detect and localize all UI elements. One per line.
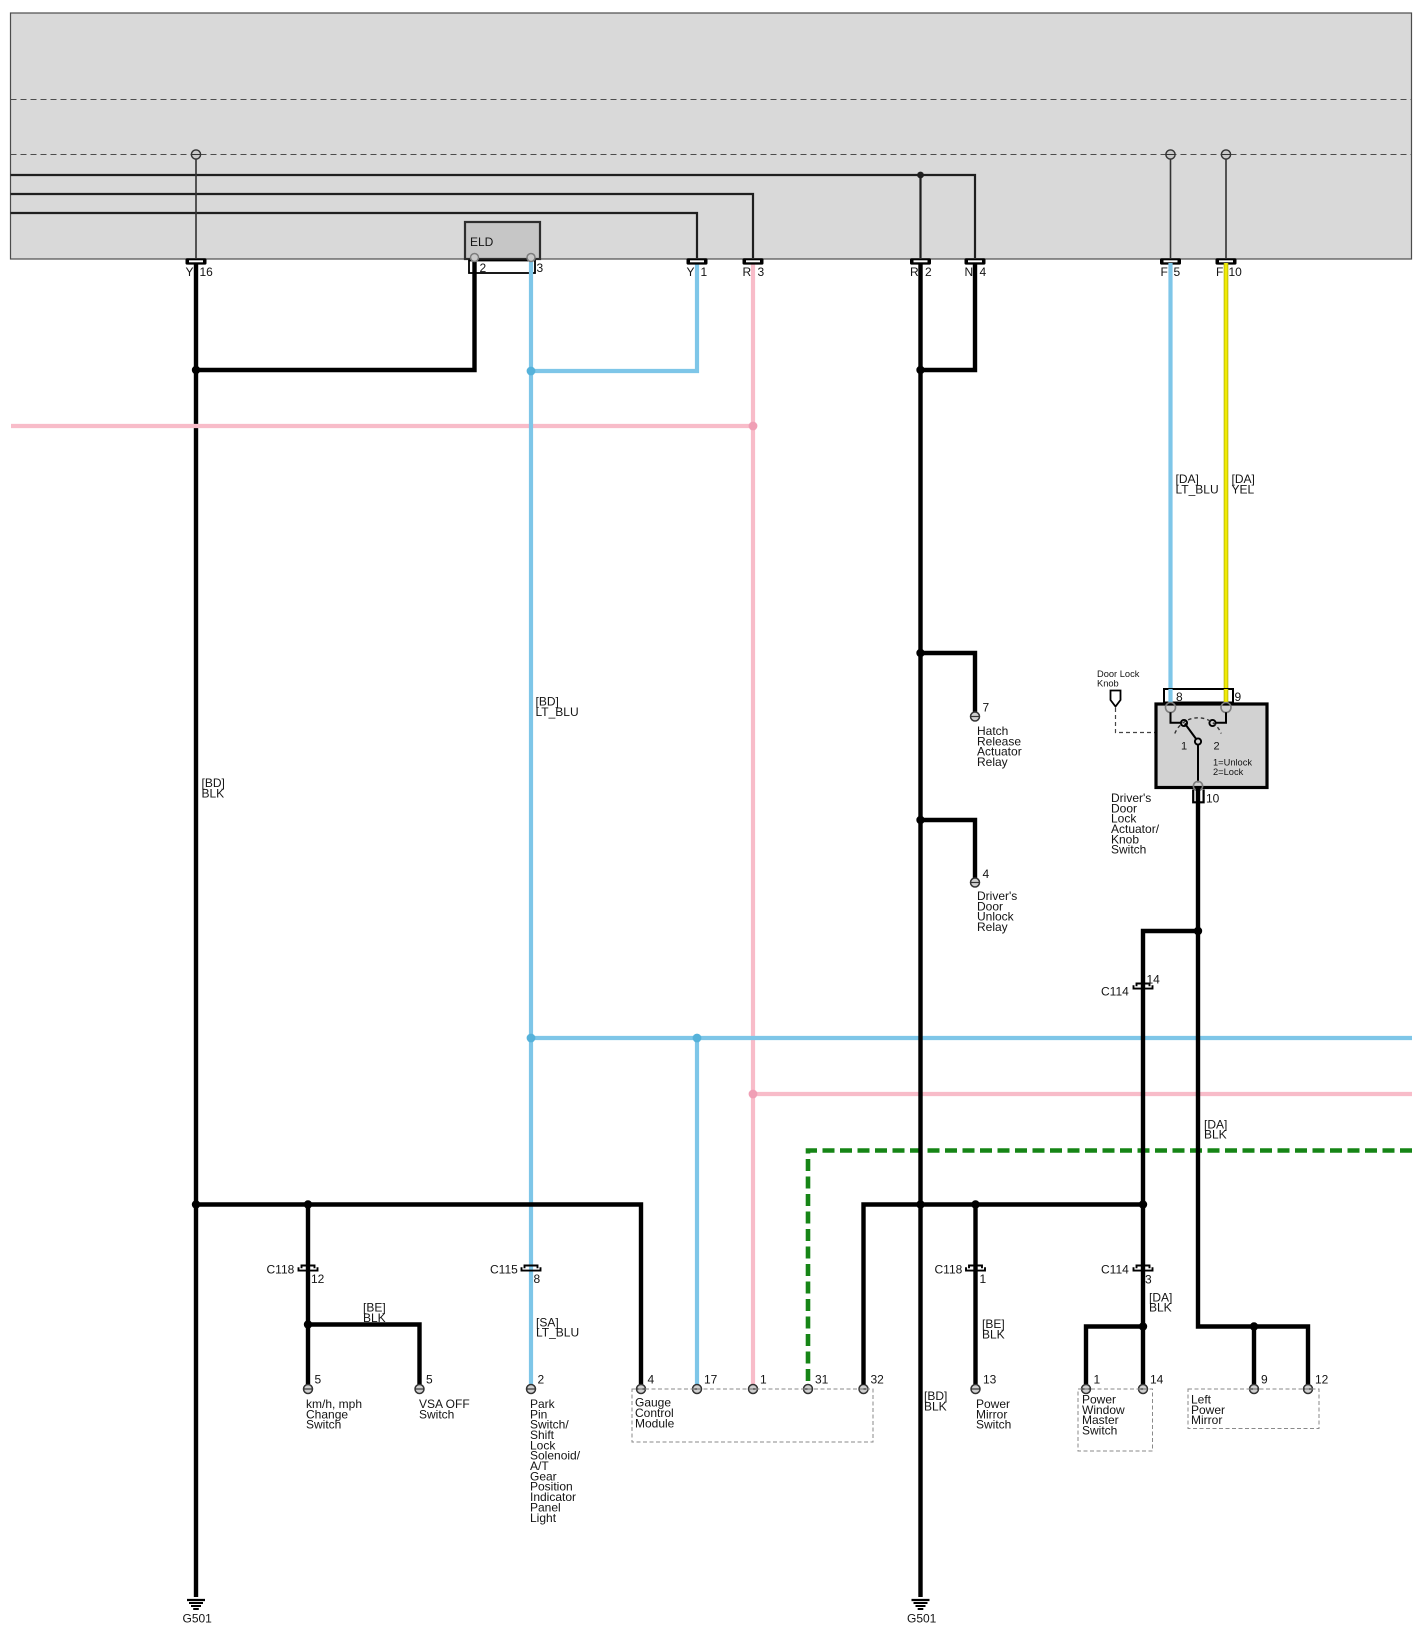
svg-text:Switch: Switch [419, 1407, 454, 1421]
svg-text:G501: G501 [907, 1612, 937, 1626]
connector C115 pin 8 [490, 1262, 541, 1286]
svg-text:Y: Y [186, 265, 194, 279]
ELD pin circles and numbers [471, 254, 544, 276]
power window master switch dashed box [1078, 1389, 1153, 1451]
label DA YEL [1232, 472, 1255, 496]
green dashed wire to gauge pin 31 [808, 1151, 1412, 1385]
svg-text:8: 8 [1176, 690, 1183, 704]
driver's door lock actuator connector bar 8/9 [1164, 689, 1242, 704]
svg-text:F: F [1161, 265, 1168, 279]
svg-text:R: R [910, 265, 919, 279]
wire N4 link to R2 [921, 263, 976, 370]
svg-text:4: 4 [980, 265, 987, 279]
yellow wire F10 down to door lock knob switch pin 9 [1224, 263, 1229, 705]
gauge pin 1 terminal [749, 1373, 768, 1394]
svg-text:Mirror: Mirror [1191, 1413, 1222, 1427]
label driver's door unlock relay [977, 889, 1017, 934]
blue wire F5 down to door lock knob switch pin 8 [1168, 263, 1172, 705]
svg-text:10: 10 [1229, 265, 1243, 279]
node junction R2/N4 [916, 366, 924, 374]
wire to R3 inside band [11, 194, 754, 258]
svg-text:3: 3 [537, 261, 544, 275]
switch legend [1213, 758, 1252, 777]
svg-text:2: 2 [480, 261, 487, 275]
svg-text:3: 3 [1145, 1273, 1152, 1287]
wires into connector 8/9 [1171, 689, 1227, 707]
pin 7 terminal [971, 701, 990, 722]
svg-text:BLK: BLK [363, 1311, 386, 1325]
pin 2 park pin switch terminal [527, 1373, 545, 1394]
svg-text:1: 1 [1094, 1373, 1101, 1387]
svg-text:LT_BLU: LT_BLU [1176, 482, 1219, 496]
node pink junction at y426 [749, 422, 758, 431]
svg-text:Light: Light [530, 1511, 557, 1525]
pink wire R3 down to gauge pin 1 [751, 263, 755, 1385]
label BE BLK mid [982, 1317, 1005, 1341]
pink wire horizontal from R3 node to left edge [11, 424, 753, 428]
node junction bus at km/h branch [304, 1200, 312, 1208]
svg-text:1: 1 [701, 265, 708, 279]
pink wire horizontal y1094 to right edge [753, 1092, 1412, 1096]
left power mirror dashed box [1188, 1389, 1319, 1429]
label BD LT_BLU [536, 695, 579, 719]
svg-text:R: R [743, 265, 752, 279]
label hatch release actuator relay [977, 724, 1022, 769]
driver's door lock actuator / knob switch box [1156, 704, 1267, 788]
svg-text:5: 5 [315, 1373, 322, 1387]
svg-text:C114: C114 [1101, 1262, 1129, 1276]
connector bar F10 [1216, 258, 1243, 279]
label BE BLK left [363, 1301, 386, 1325]
wire to Y1 inside band [11, 213, 698, 258]
svg-text:G501: G501 [183, 1612, 213, 1626]
pin 9 left power mirror terminal [1250, 1373, 1269, 1394]
ELD unit [465, 222, 540, 259]
connector bar R3 [743, 258, 765, 279]
gauge pin 31 terminal [804, 1373, 829, 1394]
svg-text:LT_BLU: LT_BLU [536, 705, 579, 719]
blue wire horizontal y1038 to right edge [531, 1036, 1412, 1040]
svg-text:1: 1 [980, 1272, 987, 1286]
gauge pin 17 terminal [693, 1373, 718, 1394]
node junction bus at R2 wire [916, 1200, 924, 1208]
label DA LT_BLU [1176, 472, 1219, 496]
blue wire ELD pin3 down to park pin switch [529, 257, 533, 1385]
blue wire link to Y1 [531, 263, 697, 371]
svg-text:12: 12 [1315, 1373, 1329, 1387]
label DA BLK right upper [1204, 1117, 1227, 1141]
connector bar N4 [965, 258, 987, 279]
node junction left power mirror [1250, 1322, 1258, 1330]
pin 12 left power mirror terminal [1304, 1373, 1329, 1394]
connector bar R2 [910, 258, 932, 279]
node junction power window master switch branch [1139, 1322, 1147, 1330]
label power mirror switch [976, 1397, 1011, 1432]
wire branch to driver's door unlock relay pin 4 [916, 816, 975, 878]
gauge control module pins [637, 1373, 655, 1394]
svg-text:F: F [1216, 265, 1223, 279]
svg-text:2=Lock: 2=Lock [1213, 767, 1244, 777]
door lock knob symbol [1111, 691, 1121, 707]
wire from switch pin 10 down [1196, 789, 1200, 931]
node junction ELD2/Y16 [192, 366, 200, 374]
switch wiper to pin 10 [1193, 744, 1202, 791]
label SA LT_BLU [536, 1315, 579, 1339]
label BD BLK mid [924, 1389, 947, 1413]
pin 5 VSA terminal [415, 1373, 433, 1394]
svg-text:5: 5 [1174, 265, 1181, 279]
node junction bus at C114 wire [1139, 1200, 1147, 1208]
label door lock knob [1097, 669, 1140, 688]
svg-text:3: 3 [758, 265, 765, 279]
gauge pin 32 terminal [859, 1373, 884, 1394]
pin stub Y16 inside band [191, 150, 200, 258]
svg-text:13: 13 [983, 1373, 997, 1387]
switch internal wiring pin9 to contact 2 [1209, 712, 1226, 726]
wire km/h branch down [306, 1205, 310, 1385]
svg-text:C118: C118 [935, 1262, 963, 1276]
node blue junction y1038 [527, 1034, 536, 1043]
svg-text:17: 17 [704, 1373, 718, 1387]
connector C114 pin 14 [1101, 973, 1160, 999]
svg-text:9: 9 [1261, 1373, 1268, 1387]
ground G501 left [183, 1600, 213, 1626]
svg-text:14: 14 [1147, 973, 1161, 987]
pin 4 terminal [971, 867, 990, 887]
label park pin switch [530, 1397, 581, 1525]
svg-text:4: 4 [983, 867, 990, 881]
svg-text:LT_BLU: LT_BLU [536, 1326, 579, 1340]
node junction bus at power mirror switch branch [971, 1200, 979, 1208]
node junction BE branch [304, 1320, 312, 1328]
switch contact labels [1181, 741, 1220, 753]
fuse box band [11, 13, 1412, 259]
svg-text:1: 1 [760, 1373, 767, 1387]
svg-text:Switch: Switch [976, 1418, 1011, 1432]
label km/h mph change switch [306, 1397, 362, 1432]
wire branch down to power mirror switch pin 13 [973, 1205, 977, 1385]
svg-text:BLK: BLK [1204, 1128, 1227, 1142]
ELD connector housing [469, 261, 535, 274]
gauge control module dashed box [632, 1389, 873, 1442]
label BD BLK left [202, 776, 225, 800]
wire R2 down to ground [918, 263, 922, 1597]
pin 1 PWMS terminal [1082, 1373, 1101, 1394]
svg-text:BLK: BLK [924, 1399, 947, 1413]
svg-text:Switch: Switch [306, 1418, 341, 1432]
svg-text:14: 14 [1150, 1373, 1164, 1387]
switch pin 9 terminal [1221, 703, 1231, 713]
dashed link knob to switch [1116, 708, 1157, 733]
pin 14 PWMS terminal [1139, 1373, 1164, 1394]
svg-text:32: 32 [871, 1373, 885, 1387]
svg-text:7: 7 [983, 701, 990, 715]
svg-text:C115: C115 [490, 1262, 518, 1276]
connector C118 pin 1 [935, 1262, 987, 1286]
switch pin 8 terminal [1166, 703, 1176, 713]
connector bar Y16 [186, 258, 214, 279]
wire Y16 down to ground bus [194, 263, 198, 1597]
label driver's door lock actuator knob switch [1111, 791, 1160, 857]
svg-text:C118: C118 [267, 1262, 295, 1276]
svg-text:8: 8 [534, 1272, 541, 1286]
svg-text:BLK: BLK [202, 786, 225, 800]
svg-text:9: 9 [1235, 690, 1242, 704]
svg-text:Y: Y [687, 265, 695, 279]
node blue junction y371 [527, 367, 536, 376]
svg-text:ELD: ELD [470, 235, 494, 249]
ground bus left segment [196, 1205, 641, 1385]
node pink junction at y1094 [749, 1090, 758, 1099]
switch rotary dashed arc [1175, 718, 1221, 734]
wire stub to mirror pin 9 [1252, 1327, 1256, 1385]
wire branch to PWMS pin 1 [1086, 1327, 1143, 1385]
svg-text:2: 2 [1214, 741, 1220, 753]
svg-text:Switch: Switch [1082, 1424, 1117, 1438]
svg-text:16: 16 [200, 265, 214, 279]
svg-text:BLK: BLK [1149, 1301, 1172, 1315]
pin 13 power mirror switch terminal [971, 1373, 997, 1394]
svg-text:10: 10 [1206, 792, 1220, 806]
connector C114 pin 3 [1101, 1262, 1153, 1286]
pin 10 connector bracket [1193, 790, 1219, 806]
wire ELD pin2 to Y16 wire [196, 257, 475, 370]
svg-text:5: 5 [426, 1373, 433, 1387]
switch lever to position 1 [1185, 724, 1201, 745]
wire branch to VSA OFF switch [308, 1325, 420, 1385]
wire bus to N4 and R2 inside band [11, 172, 976, 258]
connector C118 pin 12 [267, 1262, 325, 1286]
node junction below switch [1194, 927, 1202, 935]
svg-text:YEL: YEL [1232, 482, 1255, 496]
svg-text:Knob: Knob [1097, 678, 1119, 688]
connector bar Y1 [687, 258, 708, 279]
node junction bus at Y16 wire [192, 1200, 200, 1208]
pin 5 km/h terminal [304, 1373, 322, 1394]
svg-text:Relay: Relay [977, 755, 1008, 769]
ground G501 right [907, 1600, 937, 1626]
svg-text:2: 2 [925, 265, 932, 279]
wire driver's door lock actuator down to left power mirror [1198, 931, 1308, 1385]
pin stub F5 inside band [1166, 150, 1175, 258]
wire gauge pin 32 up to ground bus right segment [864, 1205, 1144, 1385]
wire branch left to C114 pin 14 [1143, 931, 1198, 1385]
label DA BLK right lower [1149, 1290, 1172, 1314]
svg-text:Switch: Switch [1111, 843, 1146, 857]
svg-text:2: 2 [538, 1373, 545, 1387]
wire branch to hatch release actuator relay pin 7 [916, 649, 975, 712]
svg-text:Relay: Relay [977, 920, 1008, 934]
svg-text:BLK: BLK [982, 1327, 1005, 1341]
svg-text:Module: Module [635, 1416, 675, 1430]
blue wire down to gauge pin 17 [695, 1038, 699, 1385]
switch internal wiring pin8 to contact 1 [1171, 712, 1188, 726]
svg-text:4: 4 [648, 1373, 655, 1387]
node blue junction pin17 [693, 1034, 702, 1043]
label VSA OFF switch [419, 1397, 470, 1421]
connector bar F5 [1160, 258, 1181, 279]
pin stub F10 inside band [1221, 150, 1230, 258]
svg-text:12: 12 [311, 1272, 325, 1286]
svg-text:1: 1 [1181, 741, 1187, 753]
svg-text:N: N [965, 265, 974, 279]
svg-text:C114: C114 [1101, 985, 1129, 999]
svg-text:31: 31 [815, 1373, 829, 1387]
